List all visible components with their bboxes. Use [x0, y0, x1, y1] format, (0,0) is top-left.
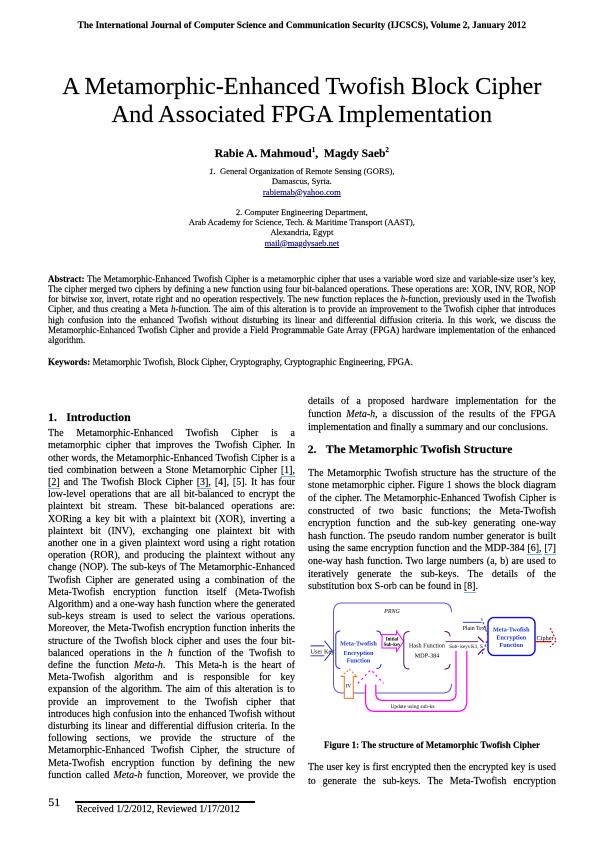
feedback dashed arrowhead [358, 670, 384, 684]
svg-text:Function: Function [499, 642, 523, 649]
cipher line [535, 641, 552, 643]
IV orange arrow [341, 669, 357, 698]
svg-text:Meta-Twofish: Meta-Twofish [340, 641, 377, 648]
svg-text:User Key: User Key [311, 649, 336, 656]
svg-text:Cipher: Cipher [537, 635, 555, 642]
svg-text:PRNG: PRNG [383, 609, 400, 615]
svg-text:Meta-Twofish: Meta-Twofish [493, 627, 530, 634]
dashed chevron into box2 [482, 618, 489, 655]
user key arrow [311, 641, 333, 661]
svg-text:Initial: Initial [386, 637, 399, 642]
PRNG outer box [334, 603, 452, 693]
svg-text:IV: IV [346, 683, 352, 689]
svg-text:Update using sub-ks: Update using sub-ks [390, 704, 434, 710]
feedback pipe outer wall [366, 651, 467, 712]
svg-text:Plain Text: Plain Text [463, 626, 487, 632]
figure 1 block diagram [300, 596, 595, 746]
svg-text:Sub-key: Sub-key [384, 643, 401, 648]
initial sub-key arrow [382, 631, 404, 652]
box2 Meta-Twofish encryption [488, 618, 535, 656]
svg-text:Encryption: Encryption [344, 650, 374, 657]
svg-text:Function: Function [347, 657, 371, 664]
plain text line [463, 621, 482, 623]
update label [387, 701, 438, 710]
feedback pipe inner wall [376, 651, 456, 701]
hash box white fill [404, 632, 450, 670]
box1 Meta-Twofish corners [336, 631, 381, 669]
svg-text:Encryption: Encryption [496, 634, 526, 641]
feedback pipe white interior [366, 651, 467, 712]
hash box brackets [404, 632, 450, 670]
svg-text:MDP-384: MDP-384 [415, 652, 440, 659]
cipher red arrowhead [550, 628, 556, 647]
sub-keys label [445, 642, 488, 649]
svg-text:Sub- keys K1, S: Sub- keys K1, S [449, 644, 483, 650]
svg-text:Hash Function: Hash Function [409, 642, 445, 649]
sub-keys line [446, 641, 479, 643]
sub-keys chevron [478, 637, 487, 655]
